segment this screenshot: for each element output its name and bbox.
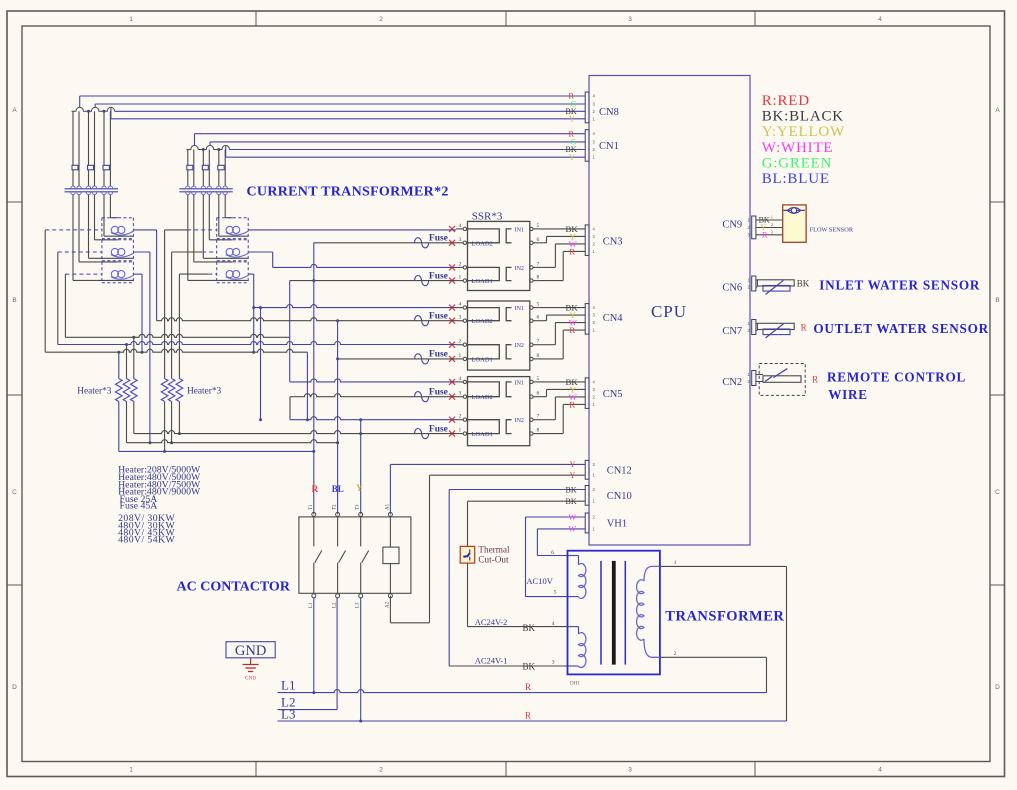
- svg-text:Y: Y: [569, 153, 575, 162]
- phase vertical Y to contactor T3: [360, 420, 362, 515]
- heater return wires: [127, 440, 338, 443]
- svg-text:1: 1: [129, 16, 133, 23]
- svg-text:LOAD1: LOAD1: [472, 431, 493, 438]
- svg-text:BL: BL: [332, 484, 344, 494]
- svg-text:1: 1: [459, 353, 462, 359]
- svg-text:BK:BLACK: BK:BLACK: [762, 109, 844, 125]
- svg-text:4: 4: [459, 223, 462, 229]
- contactor pole 360.7: [360, 517, 362, 547]
- svg-text:B: B: [12, 297, 16, 304]
- heater group 1 resistors Heater*3: [116, 379, 123, 402]
- AC contactor K1: [299, 517, 411, 593]
- svg-text:Fuse: Fuse: [429, 350, 448, 360]
- contactor pole 313.8: [313, 517, 315, 547]
- svg-text:R: R: [812, 375, 818, 385]
- svg-text:CN6: CN6: [722, 283, 742, 294]
- svg-text:CN5: CN5: [603, 389, 623, 400]
- A1 wire to CN12 pin2: [389, 464, 391, 514]
- svg-text:INLET WATER SENSOR: INLET WATER SENSOR: [819, 277, 980, 292]
- connector CN2: [752, 371, 756, 386]
- heater 1 feeds: [118, 352, 120, 378]
- contactor pole 337.6: [337, 517, 339, 547]
- svg-text:BK: BK: [797, 279, 810, 289]
- phase vertical BL to contactor T2: [337, 321, 339, 515]
- svg-text:BL:BLUE: BL:BLUE: [762, 171, 830, 187]
- svg-text:IN1: IN1: [515, 306, 524, 312]
- CT2 sense wires to CPU: [194, 134, 196, 146]
- svg-text:FLOW SENSOR: FLOW SENSOR: [810, 226, 854, 233]
- heater bottoms to returns: [118, 402, 120, 452]
- svg-text:R: R: [525, 710, 531, 720]
- svg-text:L1: L1: [281, 678, 295, 693]
- svg-text:B: B: [995, 297, 999, 304]
- svg-text:IN2: IN2: [515, 343, 524, 349]
- connector CN12: [585, 460, 589, 479]
- svg-text:1: 1: [459, 428, 462, 434]
- CT2 secondary coil modules: [217, 217, 249, 219]
- svg-text:5: 5: [537, 302, 540, 308]
- svg-text:IN1: IN1: [515, 380, 524, 386]
- svg-text:8: 8: [537, 353, 540, 359]
- svg-text:3: 3: [459, 315, 462, 321]
- heater feed / SSR bus wires: [65, 334, 289, 337]
- CN10 pin1 to thermal cutout: [468, 500, 586, 502]
- svg-text:LOAD2: LOAD2: [472, 240, 493, 247]
- svg-text:D: D: [995, 684, 1000, 691]
- svg-text:R: R: [569, 246, 575, 256]
- svg-text:4: 4: [459, 302, 462, 308]
- svg-text:Y: Y: [569, 115, 575, 124]
- CT1 row outputs: [133, 229, 156, 231]
- svg-text:LOAD2: LOAD2: [472, 318, 493, 325]
- tie vertical 260.5: [260, 308, 262, 420]
- svg-text:R: R: [525, 682, 531, 692]
- CT1 secondary coil modules: [102, 217, 133, 219]
- CT2 dashed pickup lines to heater2 feeds: [187, 229, 217, 231]
- svg-text:4: 4: [459, 376, 462, 382]
- left bus verticals: [44, 230, 46, 352]
- svg-text:1: 1: [129, 767, 133, 774]
- svg-text:Heater*3: Heater*3: [187, 387, 221, 397]
- svg-text:2: 2: [674, 651, 677, 657]
- svg-text:1: 1: [771, 215, 773, 220]
- svg-text:3: 3: [628, 16, 632, 23]
- svg-text:BK: BK: [523, 623, 536, 633]
- svg-text:CN7: CN7: [722, 326, 742, 337]
- connector CN10: [585, 486, 589, 506]
- svg-text:6: 6: [537, 391, 540, 397]
- svg-text:Y: Y: [356, 483, 363, 493]
- connector CN3: [585, 225, 589, 256]
- svg-text:AC24V-1: AC24V-1: [475, 656, 508, 666]
- SSR U3 box: [468, 301, 530, 370]
- svg-text:DH1: DH1: [570, 682, 580, 687]
- svg-text:CPU: CPU: [651, 302, 687, 321]
- svg-text:A1: A1: [385, 503, 390, 510]
- transformer secondary coil: [637, 580, 644, 641]
- svg-text:BK: BK: [523, 661, 536, 671]
- svg-text:AC10V: AC10V: [526, 576, 553, 586]
- svg-text:GND: GND: [245, 677, 256, 682]
- svg-text:L3: L3: [356, 602, 361, 608]
- svg-text:OUTLET WATER SENSOR: OUTLET WATER SENSOR: [813, 321, 989, 336]
- CT1 core bars: [65, 188, 119, 190]
- svg-text:LOAD1: LOAD1: [472, 278, 493, 285]
- svg-text:CN4: CN4: [603, 313, 624, 324]
- svg-text:GND: GND: [235, 643, 266, 659]
- svg-text:LOAD1: LOAD1: [472, 356, 493, 363]
- svg-text:2: 2: [459, 414, 462, 420]
- connector CN7: [752, 320, 756, 335]
- transformer pin2 wire: [660, 656, 767, 658]
- current transformer CT2 top loops: [186, 145, 229, 149]
- CT2 row outputs to SSR: [248, 229, 456, 231]
- inlet water sensor: [756, 279, 757, 281]
- svg-text:CN12: CN12: [607, 465, 632, 476]
- svg-text:W: W: [569, 513, 577, 522]
- svg-text:2: 2: [379, 767, 383, 774]
- svg-text:G:GREEN: G:GREEN: [762, 155, 833, 171]
- contactor bottom drops: [313, 598, 315, 693]
- svg-text:7: 7: [537, 261, 540, 267]
- SSR to CPU wires: [540, 228, 585, 230]
- svg-text:R:RED: R:RED: [762, 93, 810, 109]
- ground symbol: [250, 658, 252, 665]
- svg-text:CN2: CN2: [722, 377, 742, 388]
- transformer T1 box: [568, 551, 660, 675]
- VH1 pin2 wire to pin5: [526, 516, 586, 518]
- CT1 pickup squares: [72, 165, 78, 170]
- svg-text:REMOTE CONTROL: REMOTE CONTROL: [827, 370, 966, 385]
- heater 2 feeds (from CT2 pickup): [164, 230, 166, 379]
- svg-text:480V/ 54KW: 480V/ 54KW: [118, 535, 175, 546]
- GND label box: [226, 642, 275, 658]
- connector CN9: [752, 216, 756, 239]
- svg-text:8: 8: [537, 428, 540, 434]
- svg-text:Y: Y: [570, 471, 576, 480]
- svg-text:2: 2: [379, 16, 383, 23]
- svg-text:4: 4: [552, 621, 555, 627]
- svg-text:Fuse: Fuse: [429, 271, 448, 281]
- svg-text:IN2: IN2: [515, 266, 524, 272]
- svg-text:Y: Y: [570, 460, 576, 469]
- svg-text:4: 4: [878, 16, 882, 23]
- connector CN6: [752, 276, 756, 291]
- svg-text:A2: A2: [385, 601, 390, 608]
- svg-text:VH1: VH1: [607, 519, 627, 530]
- CT1 coil lead wires: [109, 195, 111, 218]
- svg-text:W: W: [569, 525, 577, 534]
- svg-text:T1: T1: [309, 504, 314, 510]
- svg-text:1: 1: [459, 275, 462, 281]
- svg-text:Y:YELLOW: Y:YELLOW: [762, 124, 845, 140]
- svg-text:2: 2: [459, 339, 462, 345]
- CT2 phase pair wires: [187, 150, 189, 186]
- svg-text:CN8: CN8: [599, 107, 619, 118]
- svg-text:R: R: [801, 322, 807, 332]
- thermal cut-out TH1: [460, 546, 475, 563]
- svg-text:4: 4: [878, 767, 882, 774]
- phase vertical R to contactor T1: [313, 243, 315, 514]
- CT2 pickup squares: [187, 165, 193, 170]
- CT1 sense wires to CPU: [79, 96, 81, 107]
- svg-text:7: 7: [537, 339, 540, 345]
- svg-text:5: 5: [554, 590, 557, 596]
- svg-text:Thermal: Thermal: [478, 545, 510, 555]
- CN9 wires: [756, 219, 783, 221]
- svg-text:3: 3: [459, 391, 462, 397]
- transformer primary coils: [579, 564, 586, 599]
- connector VH1: [585, 513, 589, 533]
- svg-text:6: 6: [551, 550, 554, 556]
- svg-text:Fuse: Fuse: [429, 311, 448, 321]
- svg-text:CURRENT TRANSFORMER*2: CURRENT TRANSFORMER*2: [247, 185, 449, 200]
- svg-text:R: R: [569, 399, 575, 409]
- svg-text:T2: T2: [333, 504, 338, 510]
- CN10 pin2 to AC24V-1: [449, 489, 585, 491]
- svg-text:BK: BK: [566, 485, 577, 494]
- CT2 core bars: [179, 188, 233, 190]
- svg-text:CN3: CN3: [603, 237, 623, 248]
- svg-text:7: 7: [537, 414, 540, 420]
- SSR U4 box: [468, 377, 530, 446]
- transformer pin1 wire: [660, 565, 787, 567]
- SSR U2 box: [468, 221, 530, 290]
- svg-text:C: C: [12, 489, 17, 496]
- svg-text:6: 6: [537, 237, 540, 243]
- svg-text:CN9: CN9: [722, 219, 742, 230]
- svg-text:3: 3: [552, 660, 555, 666]
- svg-text:CN1: CN1: [599, 141, 619, 152]
- svg-text:Fuse: Fuse: [429, 424, 448, 434]
- outlet water sensor: [756, 323, 757, 325]
- svg-text:2: 2: [459, 261, 462, 267]
- svg-text:L1: L1: [309, 602, 314, 608]
- svg-text:Heater*3: Heater*3: [77, 387, 111, 397]
- svg-text:AC CONTACTOR: AC CONTACTOR: [177, 580, 291, 595]
- svg-text:Cut-Out: Cut-Out: [478, 555, 509, 565]
- svg-text:5: 5: [537, 376, 540, 382]
- transformer core: [600, 561, 602, 665]
- connector CN5: [585, 378, 589, 409]
- svg-text:6: 6: [537, 315, 540, 321]
- svg-text:3: 3: [459, 237, 462, 243]
- svg-text:WIRE: WIRE: [828, 387, 868, 402]
- svg-text:A: A: [12, 107, 17, 114]
- CPU U1 box: [589, 76, 750, 546]
- current transformer CT1 top loops: [72, 107, 115, 111]
- CT1 phase pair wires: [72, 111, 74, 186]
- svg-text:CN10: CN10: [607, 491, 632, 502]
- CT1 dashed pickup lines to left bus: [45, 229, 102, 231]
- contactor coil: [383, 547, 399, 564]
- A2 wire to CN12 pin1: [389, 596, 391, 623]
- svg-text:3: 3: [628, 767, 632, 774]
- svg-text:LOAD2: LOAD2: [472, 394, 493, 401]
- svg-text:TRANSFORMER: TRANSFORMER: [665, 609, 784, 625]
- svg-text:IN2: IN2: [515, 418, 524, 424]
- svg-text:R: R: [312, 484, 319, 494]
- connector CN4: [585, 304, 589, 335]
- svg-text:BK: BK: [566, 497, 577, 506]
- connector CN8: [585, 92, 589, 123]
- svg-text:L3: L3: [281, 707, 295, 722]
- svg-text:Fuse 45A: Fuse 45A: [120, 500, 158, 511]
- svg-text:D: D: [12, 684, 17, 691]
- connector CN1: [585, 130, 589, 162]
- svg-text:T3: T3: [356, 504, 361, 510]
- svg-text:Fuse: Fuse: [429, 387, 448, 397]
- svg-text:R: R: [569, 325, 575, 335]
- flow sensor: [783, 205, 806, 242]
- svg-text:R: R: [762, 231, 768, 240]
- svg-text:C: C: [995, 489, 1000, 496]
- svg-text:AC24V-2: AC24V-2: [475, 617, 508, 627]
- svg-text:W:WHITE: W:WHITE: [762, 140, 834, 156]
- svg-text:2: 2: [771, 222, 773, 227]
- remote control wire CN2: [756, 374, 763, 376]
- svg-text:Fuse: Fuse: [429, 234, 448, 244]
- CT2 coil lead wires: [224, 195, 226, 218]
- svg-text:IN1: IN1: [515, 227, 524, 233]
- svg-text:8: 8: [537, 275, 540, 281]
- svg-text:1: 1: [674, 560, 677, 566]
- svg-text:A: A: [995, 107, 1000, 114]
- SSR fuse wires to phase verticals: [314, 242, 456, 244]
- svg-text:5: 5: [537, 223, 540, 229]
- VH1 pin1 wire to pin6: [537, 528, 585, 530]
